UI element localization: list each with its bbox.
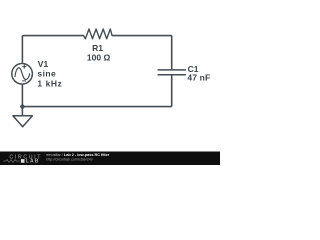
wire: left vertical + top horizontal from V1 top to R1 left lead — [22, 36, 83, 63]
wire: C1 bottom lead down to bottom-right corner, left to junction — [22, 75, 171, 107]
svg-text:LAB: LAB — [26, 159, 40, 165]
svg-text:100 Ω: 100 Ω — [87, 52, 111, 62]
ground symbol triangle — [13, 116, 33, 127]
ground stub wire — [21, 107, 23, 116]
label V1 name/value — [37, 59, 62, 89]
node junction dot — [20, 104, 24, 108]
footer logo LAB box — [21, 159, 40, 165]
V1 sine wave glyph — [15, 68, 30, 80]
voltage source V1 circle — [12, 64, 33, 85]
label C1 name/value — [187, 64, 210, 83]
resistor R1 zigzag body — [84, 29, 113, 39]
V1 minus sign — [22, 80, 26, 82]
footer black bar — [0, 152, 220, 166]
footer logo zigzag — [3, 160, 19, 163]
svg-text:47 nF: 47 nF — [187, 73, 210, 83]
capacitor C1 top plate — [158, 69, 186, 71]
label R1 name/value — [87, 43, 111, 62]
wire: R1 right lead to top-right corner, down to C1 top plate — [112, 36, 172, 70]
svg-text:V1: V1 — [38, 59, 49, 69]
svg-text:1 kHz: 1 kHz — [37, 79, 62, 89]
capacitor C1 bottom plate — [158, 74, 186, 76]
svg-text:http://circuitlab.com/c6dv24v: http://circuitlab.com/c6dv24v — [46, 157, 93, 161]
V1 plus sign — [22, 65, 26, 69]
wire: V1 bottom lead to junction — [21, 85, 23, 107]
svg-text:sine: sine — [37, 68, 56, 78]
